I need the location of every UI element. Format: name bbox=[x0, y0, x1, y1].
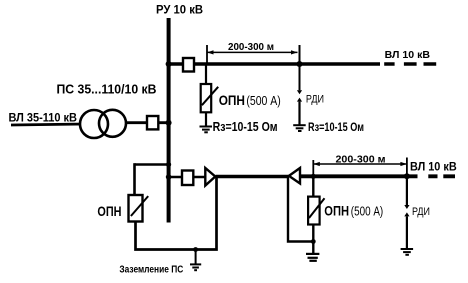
wire top feeder dashed end bbox=[384, 62, 437, 66]
svg-text:ОПН: ОПН bbox=[219, 92, 245, 108]
arrowhead right (bottom dimension) bbox=[400, 162, 407, 166]
svg-text:ОПН: ОПН bbox=[324, 203, 349, 219]
svg-text:РДИ: РДИ bbox=[306, 94, 324, 106]
spark gap РДИ-2 bbox=[404, 205, 409, 209]
wire transformer to bus bbox=[120, 121, 167, 124]
svg-text:(500 А): (500 А) bbox=[351, 205, 383, 219]
dimension 200-300 м (top) bbox=[207, 45, 298, 64]
svg-text:РДИ: РДИ bbox=[412, 206, 430, 218]
arrowhead left (bottom dimension) bbox=[313, 162, 320, 166]
dimension 200-300 м (bottom) bbox=[313, 158, 407, 177]
wire top feeder solid bbox=[169, 62, 380, 66]
ground Заземление ПС bbox=[190, 264, 201, 270]
svg-text:200-300 м: 200-300 м bbox=[228, 41, 274, 53]
svg-text:ВЛ 10 кВ: ВЛ 10 кВ bbox=[410, 162, 457, 174]
ground Заземление ПС stem bbox=[195, 250, 197, 265]
ground under РДИ-1 bbox=[293, 125, 306, 131]
bus РУ 10 кВ bbox=[167, 18, 171, 223]
transformer T1 ПС 35...110/10 кВ bbox=[80, 110, 126, 138]
junction ОПН-2 leg / triangle wire bbox=[311, 239, 316, 244]
wire left ОПН branch vertical bbox=[133, 163, 136, 195]
ground under РДИ-2 bbox=[401, 249, 414, 255]
svg-text:(500 А): (500 А) bbox=[246, 94, 280, 108]
wire ВЛ 35-110 кВ to transformer bbox=[11, 124, 85, 125]
arrowhead right (top dimension) bbox=[291, 50, 298, 54]
spark gap РДИ-1 bbox=[297, 90, 302, 94]
ground under ОПН-2 bbox=[306, 254, 319, 261]
wire ОПН-3 to substation earth line bbox=[136, 177, 217, 250]
arrowhead left (top dimension) bbox=[207, 50, 214, 54]
junction substation earth line / ground bbox=[193, 247, 198, 252]
junction bus / left branch bbox=[166, 162, 171, 167]
cable termination triangle (left-pointing) bbox=[289, 168, 300, 184]
svg-text:ВЛ 35-110 кВ: ВЛ 35-110 кВ bbox=[9, 111, 78, 125]
breaker square on top feeder bbox=[183, 58, 194, 72]
junction bus / lower branch bbox=[166, 174, 172, 180]
wire left ОПН branch horizontal bbox=[135, 163, 169, 166]
wire lower branch bus to breaker bbox=[169, 176, 206, 179]
surge arrester ОПН-1 (500 А) bbox=[201, 64, 219, 126]
junction lower feeder / РДИ-2 tap bbox=[404, 173, 410, 179]
svg-text:Rз=10-15 Ом: Rз=10-15 Ом bbox=[308, 122, 364, 134]
ground under ОПН-1 bbox=[200, 127, 213, 133]
wire between triangles (cable run) bbox=[216, 175, 289, 178]
breaker square on lower branch bbox=[182, 171, 193, 186]
surge arrester ОПН-3 (left) bbox=[129, 195, 149, 222]
wire triangle apex down to ОПН-2 earth bbox=[288, 178, 313, 242]
junction lower feeder / ОПН-2 tap bbox=[311, 174, 316, 179]
junction bus / top feeder bbox=[166, 61, 172, 67]
svg-text:200-300 м: 200-300 м bbox=[336, 154, 386, 166]
wire lower feeder dashed end bbox=[428, 174, 455, 178]
arrester РДИ-1 tap wire bbox=[299, 45, 301, 90]
junction top feeder / РДИ tap bbox=[297, 61, 303, 67]
cable termination triangle (right-pointing) bbox=[205, 168, 215, 186]
junction transformer wire / bus bbox=[166, 120, 172, 126]
svg-text:ПС 35...110/10 кВ: ПС 35...110/10 кВ bbox=[57, 82, 157, 97]
svg-text:РУ 10 кВ: РУ 10 кВ bbox=[156, 3, 203, 17]
breaker square on transformer-bus wire bbox=[147, 116, 158, 129]
wire lower feeder ВЛ 10 кВ solid bbox=[300, 174, 418, 178]
svg-text:Rз=10-15 Ом: Rз=10-15 Ом bbox=[213, 119, 278, 134]
svg-text:ОПН: ОПН bbox=[97, 203, 121, 219]
svg-text:ВЛ 10 кВ: ВЛ 10 кВ bbox=[385, 49, 431, 61]
surge arrester ОПН-2 (500 А) bbox=[308, 176, 324, 253]
arrester РДИ-2 tap wire bbox=[406, 176, 408, 206]
svg-text:Заземление ПС: Заземление ПС bbox=[119, 265, 183, 276]
